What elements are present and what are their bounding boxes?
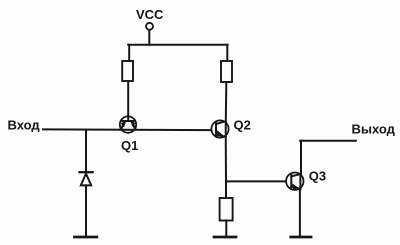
ground (left)	[75, 236, 97, 239]
svg-text:VCC: VCC	[136, 7, 164, 22]
wire rail to R2	[226, 45, 228, 61]
wire VCC terminal to rail	[148, 30, 150, 45]
resistor R3	[220, 198, 233, 221]
wire Q3 emitter to ground	[299, 190, 301, 237]
transistor Q1	[120, 116, 136, 132]
wire R2 through Q2 to junction	[225, 82, 228, 181]
wire diode to ground	[85, 185, 87, 236]
wire rail to R1	[128, 45, 130, 61]
diode VD1	[80, 172, 93, 185]
transistor Q2	[211, 120, 228, 137]
resistor R2	[221, 61, 232, 82]
svg-text:Q1: Q1	[121, 138, 138, 153]
svg-text:Q2: Q2	[234, 118, 251, 133]
wire output line	[300, 140, 356, 142]
wire VCC rail	[128, 44, 227, 46]
wire Q3 collector riser	[300, 141, 302, 174]
wire R1 to Q1 collector	[127, 81, 129, 121]
svg-text:Q3: Q3	[309, 169, 326, 184]
wire input line to Q2 base	[43, 128, 212, 131]
svg-text:Вход: Вход	[8, 117, 41, 132]
VCC terminal	[146, 23, 153, 30]
wire input to diode	[85, 130, 87, 172]
ground (middle)	[214, 236, 236, 239]
wire junction to R3	[225, 181, 227, 198]
resistor R1	[122, 61, 133, 81]
ground (right)	[291, 236, 311, 239]
wire junction to Q3 base	[226, 180, 286, 182]
transistor Q3	[286, 173, 303, 190]
wire R3 to ground	[225, 221, 227, 237]
svg-text:Выход: Выход	[352, 122, 396, 137]
